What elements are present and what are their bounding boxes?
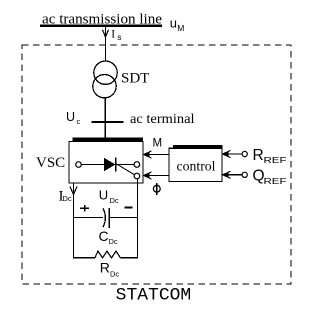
- wire: from transmission line to transformer: [105, 26, 107, 62]
- svg-text:c: c: [77, 117, 81, 126]
- VSC internal: left terminal circle: [76, 162, 82, 168]
- thyristor/valve triangle: [104, 158, 116, 171]
- svg-text:C: C: [99, 228, 109, 244]
- wire: DC left leg: [73, 183, 75, 258]
- svg-text:REF: REF: [264, 176, 287, 186]
- R_REF input terminal circle: [242, 151, 247, 156]
- VSC internal: lower right terminal circle: [134, 173, 140, 179]
- svg-text:Dc: Dc: [110, 270, 119, 279]
- wire: DC right leg: [137, 179, 139, 258]
- wire: cathode to upper right circle: [116, 164, 134, 166]
- svg-text:R: R: [253, 147, 264, 164]
- svg-text:I: I: [111, 29, 115, 41]
- thyristor cathode bar: [115, 157, 117, 171]
- wire: left circle to thyristor: [81, 164, 104, 166]
- svg-text:VSC: VSC: [36, 155, 65, 171]
- VSC box: [69, 142, 143, 184]
- svg-text:REF: REF: [264, 155, 287, 165]
- wire: capacitor branch left: [74, 217, 104, 219]
- svg-text:M: M: [177, 23, 184, 33]
- wire: R_REF input: [222, 153, 242, 155]
- wire: transformer to VSC: [104, 98, 106, 140]
- VSC internal: upper right terminal circle: [134, 162, 140, 168]
- wire: phi signal from control to VSC: [143, 175, 169, 177]
- arrow I_DC on left leg: [70, 187, 77, 195]
- wire: capacitor branch right: [109, 217, 137, 219]
- arrowhead phi (points left into VSC): [143, 173, 150, 177]
- svg-text:ac terminal: ac terminal: [130, 111, 195, 126]
- svg-text:Dc: Dc: [63, 194, 72, 203]
- STATCOM dashed boundary box: [22, 45, 291, 284]
- svg-text:U: U: [66, 110, 75, 124]
- control box top thick bar: [173, 145, 222, 149]
- capacitor C_DC straight plate: [108, 208, 110, 228]
- resistor R_DC zigzag: [95, 251, 121, 258]
- wire: bottom bus right: [121, 257, 138, 259]
- Q_REF input terminal circle: [242, 172, 247, 177]
- svg-text:M: M: [153, 138, 163, 150]
- svg-text:control: control: [177, 159, 216, 174]
- svg-text:R: R: [100, 260, 110, 276]
- wire: M signal from control to VSC: [143, 154, 169, 156]
- minus sign: [124, 207, 132, 209]
- VSC top thick bus bar: [73, 137, 144, 141]
- wire: bottom bus left: [73, 257, 95, 259]
- label phi: [153, 185, 160, 192]
- arrowhead M (points left into VSC): [143, 152, 150, 156]
- arrowhead Q_REF (points left into control): [222, 173, 229, 177]
- capacitor C_DC curved plate: [103, 208, 105, 227]
- control box: [169, 148, 222, 181]
- arrow Is (current into STATCOM): [103, 30, 109, 37]
- wire: diagonal from cathode to lower right circle: [116, 164, 135, 175]
- ac terminal bar: [92, 121, 124, 123]
- wire: ac transmission line conductor: [40, 24, 162, 27]
- plus sign: [80, 205, 89, 212]
- svg-text:STATCOM: STATCOM: [116, 286, 192, 306]
- svg-text:u: u: [170, 15, 177, 30]
- svg-text:Dc: Dc: [109, 237, 118, 246]
- svg-text:s: s: [117, 32, 121, 42]
- svg-text:U: U: [99, 188, 108, 203]
- svg-text:Dc: Dc: [110, 196, 119, 205]
- transformer SDT (two overlapping circles): [94, 61, 117, 84]
- svg-text:SDT: SDT: [121, 71, 149, 87]
- wire: Q_REF input: [222, 174, 242, 176]
- arrowhead R_REF (points left into control): [222, 152, 229, 156]
